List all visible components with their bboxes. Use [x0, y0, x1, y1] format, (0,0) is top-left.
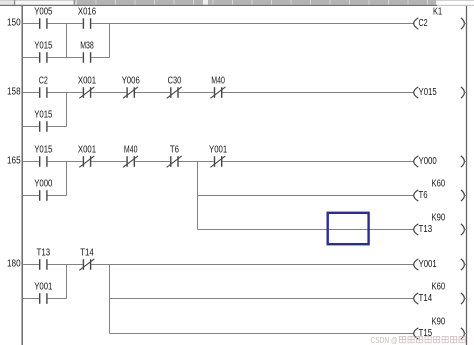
wire — [198, 229, 415, 231]
NO contact Y001 — [34, 282, 53, 304]
wire — [48, 264, 83, 266]
wire — [198, 195, 415, 197]
wire — [22, 298, 39, 300]
svg-text:158: 158 — [7, 86, 21, 97]
NC contact M40 — [210, 76, 225, 99]
NC contact C30 — [167, 76, 182, 99]
wire — [22, 161, 39, 163]
wire — [48, 298, 67, 300]
selection cursor (blue cell highlight) — [328, 213, 369, 244]
svg-text:C30: C30 — [168, 76, 182, 87]
svg-text:Y000: Y000 — [419, 156, 438, 167]
wire — [222, 92, 414, 94]
wire — [48, 126, 67, 128]
wire — [48, 161, 83, 163]
svg-text:M40: M40 — [124, 145, 138, 156]
svg-text:X001: X001 — [78, 145, 97, 156]
wire — [48, 23, 83, 25]
wire — [22, 23, 39, 25]
wire junction — [66, 162, 68, 196]
coil Y000 — [414, 156, 467, 167]
NO contact Y005 — [34, 7, 53, 29]
NC contact T14 — [79, 248, 94, 271]
wire — [22, 57, 39, 59]
wire — [48, 195, 67, 197]
wire — [91, 57, 109, 59]
svg-text:T6: T6 — [419, 190, 428, 201]
coil Y015 — [414, 87, 467, 98]
wire — [179, 92, 214, 94]
wire junction — [197, 162, 199, 230]
wire — [91, 92, 126, 94]
wire — [179, 161, 214, 163]
svg-text:K90: K90 — [432, 213, 446, 224]
left power rail — [21, 6, 23, 345]
svg-text:M38: M38 — [80, 41, 94, 52]
NO contact Y015 — [34, 110, 53, 132]
wire — [22, 92, 39, 94]
wire — [110, 333, 415, 335]
coil T14 — [414, 293, 467, 304]
svg-text:T13: T13 — [419, 224, 433, 235]
coil T13 — [414, 224, 467, 235]
wire — [91, 161, 126, 163]
coil T6 — [414, 190, 467, 201]
svg-text:K60: K60 — [432, 282, 446, 293]
NO contact T13 — [37, 248, 51, 270]
svg-text:M40: M40 — [211, 76, 225, 87]
svg-text:Y005: Y005 — [34, 7, 53, 18]
svg-text:T14: T14 — [419, 293, 433, 304]
svg-text:165: 165 — [7, 155, 21, 166]
wire junction — [66, 265, 68, 299]
wire — [22, 264, 39, 266]
svg-text:Y001: Y001 — [209, 145, 228, 156]
wire — [110, 298, 415, 300]
svg-text:K1: K1 — [433, 7, 442, 18]
svg-text:180: 180 — [7, 258, 21, 269]
wire — [22, 195, 39, 197]
watermark CSDN — [371, 336, 466, 345]
svg-text:K60: K60 — [432, 179, 446, 190]
svg-text:T15: T15 — [419, 328, 433, 339]
wire — [22, 126, 39, 128]
NO contact Y000 — [34, 179, 53, 201]
wire — [135, 161, 170, 163]
wire — [135, 92, 170, 94]
wire — [91, 264, 414, 266]
NO contact Y015 — [34, 41, 53, 63]
NO contact C2 — [39, 76, 48, 98]
wire junction — [109, 24, 111, 58]
svg-text:150: 150 — [7, 17, 21, 28]
svg-text:Y015: Y015 — [34, 41, 53, 52]
svg-text:Y015: Y015 — [34, 110, 53, 121]
wire — [48, 92, 83, 94]
svg-text:Y006: Y006 — [122, 76, 141, 87]
wire junction — [66, 24, 68, 58]
svg-text:T6: T6 — [170, 145, 179, 156]
svg-text:Y015: Y015 — [419, 87, 438, 98]
svg-text:Y000: Y000 — [34, 179, 53, 190]
svg-text:K90: K90 — [432, 317, 446, 328]
wire — [48, 57, 83, 59]
svg-text:T14: T14 — [80, 248, 94, 259]
NC contact X001 — [78, 76, 97, 99]
svg-text:T13: T13 — [37, 248, 51, 259]
NC contact M40 — [123, 145, 138, 168]
wire — [91, 23, 414, 25]
wire junction — [109, 265, 111, 334]
svg-text:C2: C2 — [419, 18, 428, 29]
svg-text:CSDN @: CSDN @ — [371, 336, 398, 345]
NO contact M38 — [80, 41, 94, 63]
svg-text:X001: X001 — [78, 76, 97, 87]
toolbar strip (top window remnant) — [0, 0, 474, 6]
svg-text:C2: C2 — [39, 76, 48, 87]
svg-text:Y015: Y015 — [34, 145, 53, 156]
coil T15 — [414, 328, 467, 339]
svg-text:Y001: Y001 — [34, 282, 53, 293]
NC contact T6 — [167, 145, 182, 168]
NC contact Y006 — [122, 76, 141, 99]
wire — [222, 161, 414, 163]
NO contact X016 — [78, 7, 97, 29]
wire junction — [66, 93, 68, 127]
NO contact Y015 — [34, 145, 53, 167]
svg-text:X016: X016 — [78, 7, 97, 18]
right power rail — [466, 6, 468, 345]
coil Y001 — [414, 259, 467, 270]
coil C2 — [414, 18, 467, 29]
svg-text:Y001: Y001 — [419, 259, 438, 270]
NC contact Y001 — [209, 145, 228, 168]
NC contact X001 — [78, 145, 97, 168]
